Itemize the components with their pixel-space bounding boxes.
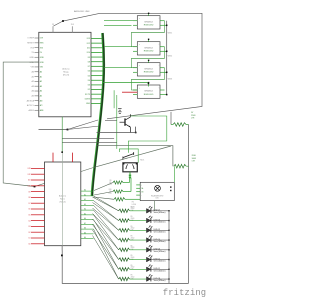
resistor R10 10k	[109, 178, 131, 195]
LED D6	[147, 255, 153, 262]
junction at Q1 emitter	[135, 132, 137, 134]
WS1 right pins	[160, 21, 167, 26]
U1 right pins green wires	[85, 38, 104, 105]
label LED D6	[154, 258, 166, 262]
svg-text:D4: D4	[29, 220, 31, 222]
LED D4	[147, 235, 153, 242]
svg-text:ARDUINO LINK: ARDUINO LINK	[74, 10, 90, 13]
motor pads	[129, 172, 131, 179]
wire net mid1	[97, 132, 136, 134]
svg-text:5mm (620nm): 5mm (620nm)	[154, 261, 166, 263]
wire LED 7 to bus	[151, 269, 170, 270]
wire WS output bus	[166, 21, 168, 96]
wire LED 5 to bus	[151, 249, 170, 250]
wires fan U2 to LED rows	[94, 196, 119, 279]
svg-text:D4: D4	[88, 80, 90, 82]
wire net mid2	[62, 138, 114, 140]
svg-text:+: +	[139, 44, 140, 46]
wire tap to R11	[170, 112, 172, 125]
LED D8	[147, 274, 153, 281]
svg-text:RGB LED: RGB LED	[144, 72, 154, 74]
wire bundle to WS1 pin2	[104, 24, 132, 26]
label NO1	[140, 160, 145, 162]
svg-text:fritzing: fritzing	[163, 288, 206, 298]
WS2 left pins	[133, 47, 137, 52]
svg-text:R5: R5	[131, 236, 133, 238]
wire switch feed T	[119, 149, 138, 163]
svg-text:A5: A5	[40, 95, 42, 98]
svg-text:RGB LED: RGB LED	[144, 94, 154, 96]
WS4 top pin	[148, 82, 149, 85]
svg-text:WS2812: WS2812	[144, 68, 153, 70]
label WS3	[168, 79, 173, 81]
svg-text:D9: D9	[88, 57, 90, 59]
svg-text:D13: D13	[87, 38, 90, 40]
IC U1 Arduino Mega 2560	[39, 32, 91, 117]
svg-text:GND: GND	[40, 57, 45, 59]
wires fan bundle to LED rows	[93, 197, 119, 279]
svg-text:RGB LED: RGB LED	[144, 51, 154, 53]
svg-text:D1: D1	[29, 238, 31, 240]
wire bundle to WS3 pin1	[104, 67, 132, 69]
svg-text:R9: R9	[110, 180, 112, 182]
WS2 right pins	[160, 47, 167, 52]
svg-text:R5: R5	[131, 216, 133, 218]
svg-text:(Rev3): (Rev3)	[63, 74, 70, 76]
U2 left pins red	[28, 168, 45, 245]
resistor row 1 220 ohm	[119, 206, 136, 212]
resistor row 6 220 ohm	[119, 255, 136, 261]
WS1 left pins	[133, 21, 137, 26]
svg-text:WS2812: WS2812	[144, 21, 153, 23]
svg-text:Arduino: Arduino	[59, 195, 67, 198]
U2 right pins	[81, 189, 94, 240]
wire resistor to LED 6	[130, 259, 147, 261]
node under U1	[67, 129, 69, 131]
wire return bus right	[188, 125, 190, 284]
svg-text:D12: D12	[87, 43, 90, 45]
svg-text:A7/SCL: A7/SCL	[27, 104, 35, 107]
svg-text:D7: D7	[88, 66, 90, 68]
svg-text:(Rev3): (Rev3)	[59, 201, 65, 203]
resistor RGB 560 ohm	[174, 155, 197, 182]
WS4 right pins	[160, 90, 167, 95]
label WS2	[168, 56, 173, 58]
wire U1 area to node	[39, 129, 68, 131]
svg-text:D2: D2	[88, 89, 90, 91]
IC U2 Arduino Nano	[45, 162, 81, 246]
svg-text:A0: A0	[40, 70, 42, 73]
U2 bottom pin	[61, 246, 63, 251]
svg-text:D13: D13	[28, 168, 31, 170]
wire resistor to LED 1	[130, 210, 147, 212]
svg-text:5mm (620nm): 5mm (620nm)	[154, 270, 166, 272]
svg-text:D3: D3	[29, 226, 31, 228]
wire U1 bottom to U2 green	[61, 117, 63, 153]
svg-text:A2: A2	[40, 80, 42, 83]
wire resistor to LED 7	[130, 268, 147, 270]
resistor row 7 220 ohm	[119, 265, 136, 271]
svg-text:WS2812: WS2812	[144, 47, 153, 49]
svg-text:+: +	[139, 18, 140, 20]
lamp module LA1 incandescent	[140, 182, 174, 200]
LA1 left pins	[136, 185, 143, 197]
wire through U2 vertical	[61, 153, 63, 246]
label LED D1	[154, 210, 166, 214]
label LED D8	[154, 278, 166, 282]
wire LED 2 to bus	[151, 220, 170, 221]
svg-text:D0/RX: D0/RX	[85, 99, 91, 101]
wire resistor to LED 3	[130, 229, 147, 231]
vibration motor M1	[123, 163, 137, 172]
svg-text:D11: D11	[28, 180, 31, 182]
svg-text:RESET: RESET	[27, 43, 35, 45]
svg-text:R6: R6	[132, 201, 134, 203]
U1 left pins with labels	[27, 38, 45, 112]
wire long left net	[3, 62, 171, 186]
svg-text:D1/TX: D1/TX	[85, 94, 91, 96]
LED D1	[147, 206, 153, 213]
LED D5	[147, 245, 153, 252]
svg-text:A6/SDA: A6/SDA	[27, 99, 35, 102]
svg-text:D5: D5	[29, 215, 31, 217]
label LED D2	[154, 219, 166, 223]
wire LED 1 to bus	[151, 210, 170, 211]
wire resistor to LED 5	[130, 249, 147, 251]
svg-text:WS2812: WS2812	[144, 91, 153, 93]
wire resistor to LED 8	[130, 278, 147, 280]
svg-text:D12: D12	[28, 174, 31, 176]
svg-text:RGB LED: RGB LED	[144, 25, 154, 27]
svg-text:Arduino: Arduino	[62, 68, 70, 71]
svg-text:3V3: 3V3	[71, 24, 74, 26]
LED D3	[147, 225, 153, 232]
svg-text:+: +	[139, 65, 140, 67]
wire bundle to WS2 pin1	[104, 46, 132, 48]
wire fan to R10	[94, 192, 113, 196]
svg-text:R5: R5	[131, 206, 133, 208]
svg-text:R10: R10	[109, 189, 112, 191]
svg-text:IOREF: IOREF	[28, 38, 35, 40]
svg-text:D11: D11	[87, 47, 90, 49]
wire net mid4	[96, 146, 173, 167]
label LED D4	[154, 239, 166, 243]
svg-text:D6: D6	[88, 71, 90, 73]
svg-text:D6: D6	[29, 209, 31, 211]
svg-text:D8: D8	[88, 61, 90, 63]
wire bundle to WS1 pin1	[104, 20, 133, 22]
svg-text:A1: A1	[40, 75, 42, 78]
wire LED cathode bus	[168, 211, 170, 284]
svg-text:5mm (620nm): 5mm (620nm)	[154, 212, 166, 214]
svg-text:5mm (620nm): 5mm (620nm)	[154, 222, 166, 224]
resistor R6	[114, 198, 140, 209]
svg-text:+: +	[139, 87, 140, 89]
label LED D5	[154, 249, 166, 253]
svg-text:VIN: VIN	[31, 67, 35, 69]
svg-text:R5: R5	[131, 275, 133, 277]
WS2 top pin	[148, 39, 149, 42]
svg-text:R5: R5	[131, 265, 133, 267]
wire LED 3 to bus	[151, 230, 170, 231]
wire LED 6 to bus	[151, 259, 170, 260]
wire resistor to LED 4	[130, 239, 147, 241]
wire green drop B	[116, 95, 118, 149]
resistor row 3 220 ohm	[119, 226, 136, 232]
junction node on 5V link	[62, 20, 64, 22]
svg-text:D10: D10	[28, 186, 31, 188]
LED module WS2 WS2812	[137, 42, 161, 55]
wire WS2 to WS3 chain	[132, 47, 165, 68]
wire lamp bottom to row1	[154, 201, 156, 211]
junction below U2	[61, 255, 63, 257]
label LED D7	[154, 268, 166, 272]
svg-text:A4: A4	[40, 90, 42, 93]
svg-text:R5: R5	[131, 245, 133, 247]
label MEGA link	[74, 10, 90, 13]
wire fan to R6	[94, 197, 115, 199]
resistor row 2 220 ohm	[119, 216, 136, 222]
svg-text:R5: R5	[131, 226, 133, 228]
resistor R11 220 ohm	[171, 112, 196, 126]
svg-text:D5: D5	[88, 75, 90, 77]
resistor row 8 220 ohm	[119, 275, 136, 281]
junction on diagonal	[34, 186, 36, 188]
wire WS3 to WS4 chain	[132, 68, 165, 90]
svg-text:5mm (620nm): 5mm (620nm)	[154, 241, 166, 243]
svg-text:D10: D10	[87, 52, 90, 54]
svg-text:Mega: Mega	[63, 71, 69, 73]
WS3 right pins	[160, 68, 167, 73]
U1 top pins 5V/3V3	[52, 24, 74, 32]
LED module WS3 WS2812	[137, 63, 161, 76]
svg-text:D9: D9	[29, 191, 31, 193]
resistor row 5 220 ohm	[119, 245, 136, 251]
svg-text:GN: GN	[141, 191, 143, 193]
svg-text:A3: A3	[40, 85, 42, 88]
wire green drop A	[113, 90, 115, 108]
wire fan to R9	[94, 183, 113, 191]
svg-text:3V3: 3V3	[40, 47, 43, 49]
WS3 top pin	[148, 60, 149, 63]
svg-text:D3: D3	[88, 85, 90, 87]
svg-text:D0: D0	[29, 244, 31, 246]
WS4 left pins	[133, 90, 137, 95]
svg-text:5mm (620nm): 5mm (620nm)	[154, 280, 166, 282]
wire resistor to LED 2	[130, 220, 147, 222]
junction on U2 top	[61, 151, 63, 153]
transistor Q1 NPN	[120, 114, 136, 132]
LED D7	[147, 264, 153, 271]
wire 5V link top	[54, 13, 203, 119]
wire bundle to WS4 top	[103, 82, 150, 86]
watermark fritzing	[163, 288, 206, 298]
wire LED 8 to bus	[151, 278, 170, 279]
wire Q1 collector loop	[128, 116, 167, 149]
wire bundle from U1 to LED fan	[92, 33, 104, 196]
LED module WS4 WS2812	[137, 85, 161, 98]
svg-text:GND: GND	[29, 57, 34, 59]
switch lever NO1	[123, 152, 134, 160]
WS1 top pin	[148, 13, 149, 16]
svg-text:D7: D7	[29, 203, 31, 205]
resistor R9 10k	[109, 178, 130, 186]
svg-text:D2: D2	[29, 232, 31, 234]
wire node to bundle b	[68, 126, 100, 130]
svg-text:AREF: AREF	[28, 109, 34, 112]
wire bottom return loop	[62, 246, 188, 284]
label WS1	[168, 33, 173, 35]
LED D2	[147, 216, 153, 223]
svg-text:5mm (620nm): 5mm (620nm)	[154, 251, 166, 253]
wire LED 4 to bus	[151, 239, 170, 240]
svg-text:GND: GND	[40, 62, 45, 64]
svg-text:D8: D8	[29, 197, 31, 199]
wire WS1 to WS2 chain	[132, 21, 165, 47]
svg-text:GND: GND	[86, 103, 91, 105]
WS3 left pins	[133, 68, 137, 73]
wire net mid3	[62, 142, 117, 144]
wire red to WS4	[122, 91, 137, 93]
U2 top pins	[53, 153, 72, 162]
resistor row 4 220 ohm	[119, 236, 136, 242]
svg-text:5mm (620nm): 5mm (620nm)	[154, 231, 166, 233]
svg-text:R5: R5	[131, 255, 133, 257]
LED module WS1 WS2812	[137, 16, 161, 29]
label LED D3	[154, 229, 166, 233]
wire bundle stub h	[105, 119, 117, 121]
wire node to bundle a	[68, 120, 99, 130]
battery B1 plates	[118, 109, 122, 114]
